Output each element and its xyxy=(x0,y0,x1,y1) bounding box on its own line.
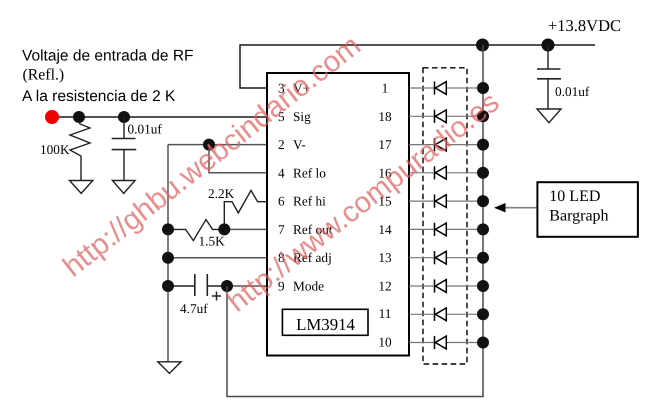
svg-text:Sig: Sig xyxy=(293,109,311,124)
svg-text:A la resistencia de 2 K: A la resistencia de 2 K xyxy=(22,88,176,105)
svg-text:14: 14 xyxy=(378,222,392,237)
svg-text:4.7uf: 4.7uf xyxy=(180,301,208,316)
svg-text:7: 7 xyxy=(278,222,285,237)
svg-text:100K: 100K xyxy=(40,142,70,157)
svg-text:2.2K: 2.2K xyxy=(208,186,235,201)
svg-text:10: 10 xyxy=(378,334,392,349)
svg-text:Ref hi: Ref hi xyxy=(293,194,326,209)
svg-text:13: 13 xyxy=(378,250,392,265)
svg-text:+13.8VDC: +13.8VDC xyxy=(548,16,621,35)
svg-text:12: 12 xyxy=(378,279,391,294)
svg-text:2: 2 xyxy=(278,137,285,152)
svg-text:1: 1 xyxy=(382,81,389,96)
svg-text:0.01uf: 0.01uf xyxy=(555,84,590,99)
svg-text:18: 18 xyxy=(378,109,392,124)
svg-text:Ref lo: Ref lo xyxy=(293,165,326,180)
svg-text:LM3914: LM3914 xyxy=(296,315,355,334)
svg-text:17: 17 xyxy=(378,137,392,152)
svg-text:V-: V- xyxy=(293,137,306,152)
svg-text:11: 11 xyxy=(379,306,392,321)
svg-text:(Refl.): (Refl.) xyxy=(23,67,65,84)
svg-text:6: 6 xyxy=(278,194,285,209)
svg-text:10 LED: 10 LED xyxy=(549,188,600,205)
svg-text:4: 4 xyxy=(278,165,285,180)
svg-text:Bargraph: Bargraph xyxy=(549,208,608,225)
svg-text:0.01uf: 0.01uf xyxy=(128,122,163,137)
svg-text:Voltaje de entrada de RF: Voltaje de entrada de RF xyxy=(22,47,193,64)
svg-text:Mode: Mode xyxy=(293,279,324,294)
svg-text:1.5K: 1.5K xyxy=(199,234,226,249)
